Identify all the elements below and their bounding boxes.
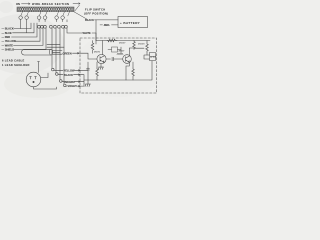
plug pin b — [35, 77, 37, 80]
wire-break curl 5 — [55, 16, 59, 20]
wire YELLOW entry — [80, 68, 88, 71]
arrow GREEN into amp box — [73, 52, 80, 54]
background paper — [0, 0, 158, 100]
svg-text:SPKR: SPKR — [150, 57, 156, 59]
part label Q2 — [119, 51, 126, 53]
capacitor C2 box — [112, 47, 118, 52]
svg-text:BLACK: BLACK — [85, 18, 94, 22]
resistor R3 — [133, 41, 136, 50]
label GREEN — [63, 51, 72, 55]
resistor R5 — [96, 68, 99, 80]
pointer arrow from title — [73, 3, 80, 11]
label WHITE — [2, 43, 14, 47]
long wire down 1 — [51, 28, 53, 68]
curl lower 4 — [64, 84, 67, 87]
wire BLUE to harness — [13, 23, 35, 33]
arrow after ON — [22, 3, 31, 5]
svg-text:2N109: 2N109 — [138, 44, 145, 46]
wire BLACK entry — [80, 75, 84, 80]
wire to YELLOW label — [54, 69, 63, 71]
chassis ground — [85, 80, 91, 87]
flip switch note line1 — [85, 8, 105, 12]
cable sheath 6-lead — [22, 49, 51, 55]
label BROWN lower — [65, 80, 75, 84]
ground Q1 emitter — [98, 67, 103, 69]
cable exit wires — [53, 50, 62, 54]
lower curl shield wire — [44, 25, 47, 28]
svg-text:-RED-: -RED- — [103, 23, 110, 27]
title text WIRE-BREAK SECTION — [16, 2, 69, 6]
wire BLACK to harness — [14, 23, 31, 29]
lower curl long 1 — [50, 25, 53, 28]
svg-text:— YELLOW: — YELLOW — [2, 39, 17, 43]
tiny part label a — [119, 43, 126, 45]
wire WHITE run — [67, 28, 96, 33]
svg-text:+ BATTERY: + BATTERY — [120, 21, 141, 25]
long wire down 3 — [59, 28, 61, 80]
long wire down 4 — [63, 28, 65, 84]
flip switch note line2 — [84, 12, 108, 16]
wire to VIOLET label — [65, 85, 68, 87]
tiny part label b — [138, 44, 145, 46]
wire BROWN entry — [80, 80, 84, 84]
curl lower 2 — [56, 73, 59, 76]
wire Q2 emitter — [126, 62, 129, 80]
inductor L1 — [117, 54, 123, 55]
svg-text:BLACK: BLACK — [64, 73, 73, 77]
wire R4 top — [134, 41, 147, 56]
lower curl yellow wire — [38, 25, 41, 28]
resistor R2 horizontal — [107, 39, 117, 42]
resistor R4 — [146, 43, 149, 52]
lower curl white run — [65, 25, 68, 28]
top rail — [96, 40, 150, 42]
wire plug top to cable — [38, 62, 40, 73]
curl lower 1 — [52, 68, 55, 71]
label YELLOW — [2, 39, 17, 43]
wire jack leads — [144, 55, 150, 59]
arrow VIOLET into box — [77, 85, 81, 87]
part label Q1 — [94, 52, 101, 54]
wire Q2 collector — [129, 48, 134, 56]
svg-text:WIRE-BREAK SECTION: WIRE-BREAK SECTION — [32, 2, 69, 6]
lower curl long 4 — [62, 25, 65, 28]
label WHITE mid — [83, 31, 92, 35]
wire-break curl 6 — [61, 16, 65, 20]
wire cable to vertical b — [47, 46, 64, 48]
wire to BROWN label — [62, 81, 64, 83]
svg-text:2N107: 2N107 — [119, 51, 126, 53]
label BLACK battery — [85, 18, 94, 22]
lower curl long 3 — [58, 25, 61, 28]
wire plug right — [41, 73, 48, 78]
long wire down 2 — [55, 28, 57, 73]
text 6 LEAD CABLE — [2, 59, 25, 63]
arrow YELLOW into box — [75, 70, 81, 72]
label BLACK — [2, 27, 14, 31]
wire Q1 base — [79, 53, 97, 59]
wire to BLACK label — [58, 74, 63, 76]
wire switch drop into amp — [95, 20, 97, 44]
label BLUE — [2, 31, 12, 35]
wire curl drop b — [26, 19, 28, 32]
label VIOLET lower — [68, 84, 78, 88]
bottom rail — [84, 61, 152, 80]
wire harness hatched band — [17, 7, 74, 12]
transistor Q2 — [123, 55, 132, 64]
battery BT1 box — [118, 17, 148, 28]
wire-break curl 2 — [25, 16, 29, 20]
label RED battery — [103, 23, 110, 27]
wire-break curl 1 — [19, 16, 23, 20]
lower curl long 2 — [54, 25, 57, 28]
text 1 LEAD SHIELDED — [2, 63, 30, 67]
curl lower 3 — [60, 80, 63, 83]
svg-text:BROWN: BROWN — [65, 80, 75, 84]
harness stub wires — [21, 12, 70, 16]
transistor Q1 — [97, 54, 106, 63]
svg-text:1 LEAD SHIELDED: 1 LEAD SHIELDED — [2, 63, 30, 67]
wire mid drop — [95, 33, 97, 41]
svg-text:— BLACK: — BLACK — [2, 27, 14, 31]
label BLACK lower — [64, 73, 73, 77]
wire Q1 emitter — [100, 64, 102, 68]
wire harness to switch — [74, 12, 88, 20]
wire cable to vertical a — [47, 43, 60, 45]
plug pin c — [33, 81, 34, 82]
lower curl white wire — [41, 25, 44, 28]
svg-text:VIOLET: VIOLET — [68, 84, 78, 88]
capacitor C1 — [87, 62, 90, 80]
plug pin a — [30, 77, 32, 80]
amplifier dashed enclosure — [80, 38, 157, 93]
svg-text:2N170: 2N170 — [94, 52, 101, 54]
wire curl drop a — [20, 19, 22, 28]
arrow BROWN into box — [75, 81, 81, 83]
label SHIELD — [2, 48, 15, 52]
svg-text:FLIP SWITCH: FLIP SWITCH — [85, 8, 105, 12]
label RED — [2, 35, 11, 39]
svg-text:ON: ON — [16, 2, 20, 6]
wire SHIELD to harness — [14, 28, 47, 50]
coupling wire Q1 Q2 — [106, 57, 123, 60]
svg-text:— SHIELD: — SHIELD — [2, 48, 15, 52]
battery label — [120, 21, 141, 25]
wire RED to battery — [100, 24, 118, 26]
svg-text:— WHITE: — WHITE — [2, 43, 14, 47]
svg-text:YELLOW: YELLOW — [64, 68, 75, 72]
output jack J1 — [150, 53, 156, 61]
wire BLACK to battery — [95, 19, 119, 21]
svg-text:WHITE: WHITE — [83, 31, 92, 35]
wire VIOLET entry — [80, 84, 84, 87]
wire-break curl 3 — [37, 16, 41, 20]
wire C2 — [108, 47, 121, 53]
resistor R6 — [132, 68, 135, 80]
wire RED to harness — [12, 23, 38, 37]
wire YELLOW to harness — [15, 28, 40, 41]
svg-text:— RED: — RED — [2, 35, 11, 39]
svg-text:6 LEAD CABLE: 6 LEAD CABLE — [2, 59, 25, 63]
label YELLOW lower — [64, 68, 75, 72]
wire plug bottom run — [34, 87, 57, 89]
arrow BLACK into box — [74, 74, 81, 76]
connector plug P1 — [26, 72, 41, 87]
svg-text:(OFF POSITION): (OFF POSITION) — [84, 12, 108, 16]
resistor R1 — [91, 41, 94, 54]
svg-text:— BLUE: — BLUE — [2, 31, 12, 35]
wire-break curl 4 — [43, 16, 47, 20]
wire Q1 collector — [102, 41, 104, 55]
svg-text:2N107: 2N107 — [119, 43, 126, 45]
wire WHITE to harness — [14, 28, 44, 45]
